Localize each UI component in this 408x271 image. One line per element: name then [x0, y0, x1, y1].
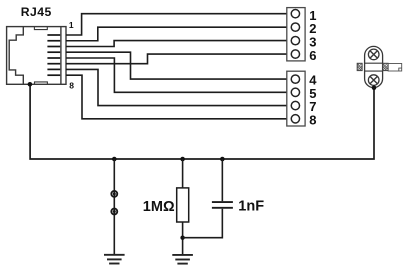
- capacitor C1 1nF: [212, 202, 233, 208]
- connector RJ45 J1: [7, 27, 66, 85]
- wires pins to terminals: [66, 14, 287, 119]
- svg-text:RJ45: RJ45: [21, 5, 52, 19]
- junction node B: [180, 157, 185, 162]
- right tab: [388, 64, 402, 72]
- junction dot at RJ45 shield: [28, 82, 33, 87]
- svg-text:6: 6: [309, 48, 316, 63]
- terminal circle 1: [291, 10, 299, 18]
- RJ45 pins 1-8: [47, 34, 60, 76]
- wire pin5 to terminal 5: [66, 58, 287, 92]
- ground middle: [172, 255, 193, 264]
- spark gap electrode top: [111, 191, 117, 197]
- resistor branch wire top: [182, 159, 184, 188]
- ground left: [104, 255, 125, 264]
- terminal circle 5: [291, 88, 299, 96]
- svg-text:1MΩ: 1MΩ: [143, 199, 175, 215]
- resistor bottom wire: [182, 222, 184, 255]
- capacitor branch wire top: [221, 159, 223, 201]
- resistor R1 1M ohm: [177, 188, 189, 222]
- spark gap branch wire: [113, 159, 115, 255]
- left flange: [357, 63, 362, 70]
- capacitor bottom wire: [183, 209, 223, 238]
- junction node C: [220, 157, 225, 162]
- right flange: [383, 63, 389, 70]
- svg-text:1nF: 1nF: [238, 199, 264, 215]
- junction node A: [112, 157, 117, 162]
- spark gap electrode bottom: [111, 209, 117, 215]
- terminal circle 8: [291, 115, 299, 123]
- junction node D: [180, 236, 184, 240]
- terminal block X1 (1,2,3,6): [287, 8, 305, 61]
- wire pin6 to terminal 6: [66, 54, 287, 64]
- svg-text:8: 8: [69, 80, 74, 90]
- svg-text:1: 1: [69, 20, 74, 30]
- wire pin1 to terminal 1: [66, 14, 287, 35]
- wire pin4 to terminal 4: [66, 52, 287, 79]
- ground bus wire: [30, 84, 374, 159]
- terminal circle 4: [291, 75, 299, 83]
- lamp bottom circle: [368, 75, 379, 86]
- lamp top circle: [368, 49, 379, 60]
- wire pin8 to terminal 8: [66, 75, 287, 119]
- wire pin7 to terminal 7: [66, 69, 287, 105]
- svg-text:8: 8: [309, 112, 316, 127]
- junction dot at lamp: [372, 85, 377, 90]
- mounting band: [365, 62, 383, 64]
- terminal circle 3: [291, 36, 299, 44]
- wire pin3 to terminal 3: [66, 41, 287, 47]
- terminal circle 7: [291, 101, 299, 109]
- flange hatching: [357, 63, 388, 70]
- terminal circle 6: [291, 50, 299, 58]
- wire pin2 to terminal 2: [66, 27, 287, 41]
- indicator lamp module U1: [357, 46, 402, 87]
- terminal circle 2: [291, 23, 299, 31]
- terminal block X2 (4,5,7,8): [287, 71, 305, 126]
